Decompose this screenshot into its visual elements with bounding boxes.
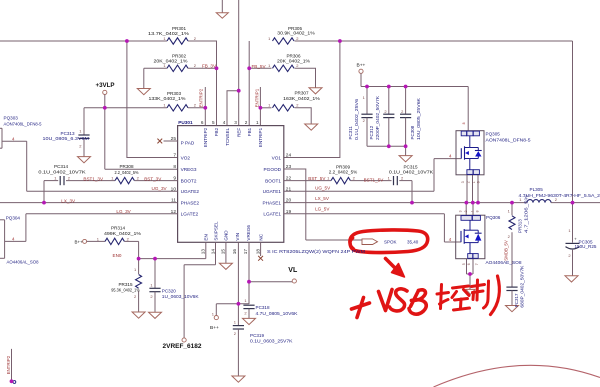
svg-text:VREG6: VREG6 [246, 225, 251, 241]
svg-text:ENTRIP2: ENTRIP2 [198, 88, 203, 107]
svg-text:LX_5V: LX_5V [315, 196, 330, 201]
svg-text:2: 2 [466, 181, 470, 183]
svg-text:8: 8 [173, 164, 176, 170]
svg-text:TCNSEL: TCNSEL [225, 127, 230, 146]
svg-text:BST_3V: BST_3V [144, 176, 162, 181]
svg-text:499K_0402_1%: 499K_0402_1% [104, 231, 141, 236]
svg-text:BST1_3V: BST1_3V [83, 176, 104, 181]
svg-text:AON7408L_DFN8-5: AON7408L_DFN8-5 [4, 121, 42, 126]
svg-text:LG_5V: LG_5V [315, 206, 330, 211]
svg-text:REF: REF [237, 128, 242, 137]
svg-text:BST1_5V: BST1_5V [364, 178, 385, 183]
svg-text:10U_0805_25V6K: 10U_0805_25V6K [416, 98, 421, 140]
svg-text:LX_3V: LX_3V [61, 198, 76, 203]
svg-text:VL: VL [288, 267, 298, 274]
svg-text:6: 6 [467, 263, 471, 265]
svg-text:24: 24 [286, 153, 292, 159]
svg-text:SMDB_5V: SMDB_5V [504, 240, 509, 261]
svg-text:30.9K_0402_1%: 30.9K_0402_1% [277, 31, 314, 36]
svg-text:18: 18 [255, 249, 260, 255]
svg-text:PC312: PC312 [369, 125, 374, 139]
svg-text:+3VLP: +3VLP [95, 82, 114, 89]
svg-text:PR308: PR308 [119, 164, 133, 169]
svg-text:LG_3V: LG_3V [116, 209, 131, 214]
svg-text:20: 20 [286, 198, 292, 204]
svg-text:UGATE2: UGATE2 [181, 189, 200, 194]
svg-text:PC319: PC319 [250, 333, 264, 338]
svg-text:VREG3: VREG3 [181, 167, 197, 172]
svg-text:14: 14 [210, 249, 215, 255]
svg-text:8: 8 [462, 122, 466, 124]
svg-text:0.1U_0603_25V7K: 0.1U_0603_25V7K [250, 338, 294, 343]
svg-text:PR307: PR307 [294, 91, 308, 96]
svg-text:6: 6 [201, 120, 204, 125]
svg-text:AON7408L_DFN8-5: AON7408L_DFN8-5 [486, 138, 531, 143]
svg-text:PC314: PC314 [54, 164, 68, 169]
svg-text:0.1U_0402_10V7K: 0.1U_0402_10V7K [38, 170, 86, 175]
svg-text:LGATE2: LGATE2 [181, 212, 199, 217]
svg-text:1: 1 [256, 120, 259, 125]
svg-text:UGATE1: UGATE1 [263, 189, 282, 194]
svg-text:23: 23 [286, 164, 292, 170]
svg-text:21: 21 [286, 186, 292, 192]
svg-text:35,40: 35,40 [407, 239, 419, 244]
svg-text:13: 13 [201, 249, 206, 255]
svg-text:PQ305: PQ305 [486, 131, 501, 136]
svg-text:20K_0402_1%: 20K_0402_1% [154, 59, 188, 64]
svg-text:7: 7 [173, 153, 176, 159]
svg-text:P PAD: P PAD [181, 141, 195, 146]
svg-text:UG_5V: UG_5V [315, 185, 331, 190]
svg-text:4.7UH_FMJ-9630T-4R7-HF_5.5A_2: 4.7UH_FMJ-9630T-4R7-HF_5.5A_2 [519, 193, 600, 198]
svg-text:PC318: PC318 [256, 305, 270, 310]
svg-text:9: 9 [173, 176, 176, 182]
svg-text:FB2: FB2 [214, 127, 219, 136]
svg-text:B++: B++ [357, 63, 366, 69]
svg-text:PC311: PC311 [348, 126, 353, 140]
svg-text:PQ303: PQ303 [4, 115, 19, 120]
svg-text:7: 7 [475, 263, 479, 265]
svg-text:17: 17 [243, 249, 248, 255]
svg-text:13.7K_0402_1%: 13.7K_0402_1% [148, 31, 189, 36]
svg-text:2: 2 [245, 120, 248, 125]
svg-text:8: 8 [477, 181, 481, 183]
svg-text:4.7U_0805_10V6K: 4.7U_0805_10V6K [256, 311, 299, 316]
svg-text:1: 1 [471, 210, 475, 212]
svg-text:SPOK: SPOK [384, 239, 397, 244]
svg-text:11: 11 [171, 198, 176, 204]
svg-text:2VREF_6182: 2VREF_6182 [163, 344, 203, 350]
svg-text:PU301: PU301 [178, 120, 193, 125]
svg-text:UG_3V: UG_3V [152, 186, 168, 191]
svg-text:VO2: VO2 [181, 155, 191, 160]
svg-text:8: 8 [476, 210, 480, 212]
svg-text:2200P_0402_50V7K: 2200P_0402_50V7K [375, 96, 380, 140]
svg-text:0.1U_0402_10V7K: 0.1U_0402_10V7K [389, 169, 434, 174]
svg-text:95.3K_0402_1%: 95.3K_0402_1% [111, 287, 140, 292]
svg-text:PR314: PR314 [111, 225, 125, 230]
svg-text:LGATE1: LGATE1 [263, 212, 281, 217]
svg-text:2: 2 [464, 210, 468, 212]
svg-text:150U_R25: 150U_R25 [575, 244, 597, 249]
svg-text:GND: GND [224, 230, 229, 241]
svg-text:ENTRIP1: ENTRIP1 [258, 127, 263, 147]
svg-text:PC317: PC317 [514, 293, 519, 307]
svg-text:ENTRIP1: ENTRIP1 [255, 88, 260, 107]
svg-text:PR313: PR313 [518, 219, 523, 233]
svg-text:PC320: PC320 [162, 289, 176, 294]
svg-text:BOOT2: BOOT2 [181, 179, 197, 184]
svg-text:15: 15 [221, 249, 226, 255]
svg-text:PHASE1: PHASE1 [263, 201, 282, 206]
svg-text:ENTRIP2: ENTRIP2 [6, 355, 11, 374]
svg-text:4.7_1206_5%: 4.7_1206_5% [524, 195, 529, 233]
svg-text:PC308: PC308 [410, 125, 415, 139]
svg-text:PHASE2: PHASE2 [181, 201, 200, 206]
svg-text:PQ306: PQ306 [486, 215, 501, 220]
svg-text:16: 16 [232, 249, 237, 255]
svg-text:FB_3V: FB_3V [202, 64, 217, 69]
svg-text:25: 25 [171, 136, 177, 142]
svg-text:10: 10 [171, 186, 177, 192]
svg-text:2.2_0402_5%: 2.2_0402_5% [115, 170, 139, 175]
svg-text:FB1: FB1 [247, 127, 252, 136]
svg-text:133K_0402_1%: 133K_0402_1% [149, 96, 186, 101]
svg-text:PGOOD: PGOOD [264, 167, 282, 172]
svg-text:BST_5V: BST_5V [308, 176, 326, 181]
svg-text:19: 19 [286, 209, 292, 215]
svg-text:S IC RT8205LZQW(2) WQFN 24P PW: S IC RT8205LZQW(2) WQFN 24P PWM [267, 249, 365, 254]
svg-text:PL305: PL305 [530, 187, 544, 192]
svg-text:EN0: EN0 [113, 253, 122, 258]
svg-text:3: 3 [459, 210, 463, 212]
svg-text:0.1U_0402_25V6: 0.1U_0402_25V6 [354, 98, 359, 140]
svg-text:PQ304: PQ304 [6, 215, 21, 220]
svg-text:4: 4 [223, 120, 226, 125]
svg-text:12: 12 [171, 209, 177, 215]
svg-text:AO4406AL_SO8: AO4406AL_SO8 [7, 259, 39, 264]
svg-text:EN: EN [204, 234, 209, 240]
svg-text:B++: B++ [75, 239, 83, 244]
svg-text:5: 5 [462, 263, 466, 265]
svg-text:3: 3 [234, 120, 237, 125]
svg-text:1: 1 [472, 181, 476, 183]
svg-text:FB_5V: FB_5V [252, 64, 267, 69]
svg-text:3: 3 [461, 181, 465, 183]
svg-text:NC: NC [258, 233, 263, 240]
svg-text:2.2_0402_5%: 2.2_0402_5% [329, 169, 358, 174]
svg-text:VIN: VIN [235, 233, 240, 241]
svg-text:ENTRIP2: ENTRIP2 [203, 127, 208, 147]
svg-text:B++: B++ [210, 325, 219, 331]
svg-text:22: 22 [286, 176, 292, 182]
svg-text:1U_0603_10V6K: 1U_0603_10V6K [162, 294, 200, 299]
svg-text:163K_0402_1%: 163K_0402_1% [283, 96, 320, 101]
svg-text:20K_0402_1%: 20K_0402_1% [277, 59, 310, 64]
svg-text:VO1: VO1 [272, 155, 282, 160]
svg-text:BOOT1: BOOT1 [265, 179, 281, 184]
svg-text:5: 5 [212, 120, 215, 125]
svg-text:SKIPSEL: SKIPSEL [213, 221, 218, 241]
svg-text:10U_0805_6.3V6M: 10U_0805_6.3V6M [43, 136, 90, 141]
svg-text:680P_0402_50V7K: 680P_0402_50V7K [520, 266, 525, 308]
